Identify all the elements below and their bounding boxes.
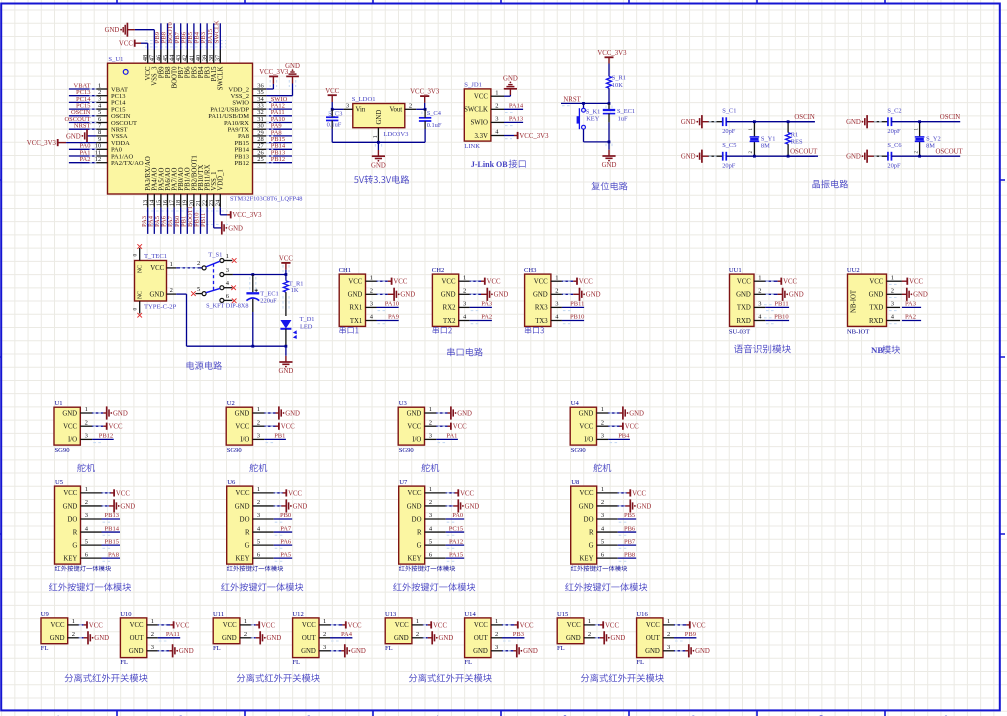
svg-text:2: 2 bbox=[601, 499, 604, 506]
svg-text:1K: 1K bbox=[291, 287, 299, 294]
IR module U6 pin numbers bbox=[257, 486, 261, 558]
TYPE-C pin 2 stub bbox=[167, 287, 177, 294]
svg-text:2: 2 bbox=[85, 499, 88, 506]
svg-text:VCC: VCC bbox=[442, 279, 456, 286]
push button S_K1 KEY bbox=[577, 103, 609, 141]
svg-text:STM32F103C8T6_LQFP48: STM32F103C8T6_LQFP48 bbox=[230, 195, 302, 202]
svg-text:GND: GND bbox=[376, 110, 383, 125]
switch contact 2 bbox=[197, 260, 206, 270]
svg-text:PB11: PB11 bbox=[200, 213, 207, 227]
svg-text:0.1uF: 0.1uF bbox=[427, 122, 442, 129]
svg-text:3: 3 bbox=[323, 644, 326, 651]
wire pin 21 (PB10/TX) bbox=[194, 194, 201, 234]
svg-text:3: 3 bbox=[495, 644, 498, 651]
wire pin 11 (PA1/AO) bbox=[69, 149, 108, 156]
title servo bbox=[249, 464, 267, 472]
wire U7 pin 3 net PA0 bbox=[425, 512, 465, 522]
svg-text:3: 3 bbox=[85, 433, 88, 440]
capacitor S_C3 bbox=[326, 109, 342, 142]
svg-text:1: 1 bbox=[588, 618, 591, 625]
svg-text:VCC: VCC bbox=[567, 622, 581, 629]
svg-text:FL: FL bbox=[636, 659, 644, 666]
svg-text:RX1: RX1 bbox=[349, 305, 362, 312]
svg-text:1: 1 bbox=[370, 274, 373, 281]
servo module U2 SG90 body bbox=[226, 407, 252, 445]
title separate IR switch module bbox=[581, 674, 664, 683]
switch lever 5-4 bbox=[206, 288, 220, 292]
svg-text:VCC: VCC bbox=[348, 622, 362, 629]
svg-text:G: G bbox=[589, 542, 594, 549]
ground at MCU pin 8 VSSA bbox=[66, 129, 96, 142]
wire U16 pin 2 net PB9 bbox=[663, 631, 696, 641]
title 5V to 3.3V circuit bbox=[354, 175, 409, 183]
svg-text:NRST: NRST bbox=[74, 123, 91, 130]
servo module U4 SG90 body bbox=[570, 407, 596, 445]
svg-text:VCC: VCC bbox=[909, 279, 923, 286]
ground at U11 pin 2 bbox=[240, 631, 281, 644]
svg-text:GND: GND bbox=[105, 27, 120, 34]
power flag VCC (LDO input) bbox=[325, 88, 339, 110]
svg-text:20pF: 20pF bbox=[887, 128, 901, 135]
svg-text:VCC_3V3: VCC_3V3 bbox=[410, 89, 440, 96]
svg-text:PA5: PA5 bbox=[280, 551, 291, 558]
svg-text:PA3: PA3 bbox=[481, 301, 492, 308]
IR module U5 pin numbers bbox=[85, 486, 89, 558]
connector S_JD1 body bbox=[464, 89, 491, 141]
svg-text:2: 2 bbox=[429, 419, 432, 426]
svg-text:GND: GND bbox=[602, 162, 617, 169]
svg-text:PA11: PA11 bbox=[166, 631, 180, 638]
node LED ground junction bbox=[285, 345, 288, 348]
svg-text:PA6: PA6 bbox=[280, 538, 292, 545]
svg-text:VCC: VCC bbox=[580, 490, 594, 497]
MCU U1 STM32F103C8T6 body bbox=[108, 63, 253, 194]
ground at UU1 pin 2 bbox=[754, 288, 804, 301]
svg-text:GND: GND bbox=[473, 648, 488, 655]
svg-text:1: 1 bbox=[667, 618, 670, 625]
ground at MCU pin 35 VSS_2 bbox=[266, 63, 300, 96]
ground at U3 pin 1 bbox=[425, 406, 473, 419]
svg-text:GND: GND bbox=[846, 154, 861, 161]
wire ground bus bottom bbox=[187, 345, 286, 347]
LDO U1 regulator S_LDO1 body bbox=[353, 104, 405, 128]
resistor S_R1 10K bbox=[607, 75, 627, 89]
svg-text:U11: U11 bbox=[213, 611, 224, 618]
svg-text:PB11: PB11 bbox=[570, 301, 584, 308]
svg-text:VCC: VCC bbox=[632, 490, 646, 497]
TYPE-C shell pin bottom (unconnected) bbox=[132, 301, 142, 318]
svg-text:3: 3 bbox=[370, 301, 373, 308]
svg-text:VCC: VCC bbox=[646, 622, 660, 629]
wire pin 19 (PB1/AO) bbox=[180, 194, 187, 234]
IR module U5 part name bbox=[55, 566, 111, 572]
MCU top pin names bbox=[145, 66, 225, 90]
power flag VCC_3V3 (reset pull-up) bbox=[597, 50, 627, 76]
ground at U2 pin 1 bbox=[253, 406, 301, 419]
servo module U1 SG90 body bbox=[54, 407, 80, 445]
svg-text:GND: GND bbox=[439, 635, 454, 642]
LDO pin 1 stub (GND) bbox=[372, 128, 379, 143]
svg-text:PA2: PA2 bbox=[80, 156, 91, 163]
svg-text:VCC: VCC bbox=[348, 279, 362, 286]
svg-text:PA2/TX/AO: PA2/TX/AO bbox=[111, 160, 144, 167]
wire U6 pin 5 net PA6 bbox=[253, 538, 293, 548]
IR switch module U12 body bbox=[293, 618, 319, 658]
svg-text:PA7: PA7 bbox=[280, 525, 292, 532]
svg-text:KEY: KEY bbox=[236, 555, 250, 562]
svg-text:2: 2 bbox=[463, 288, 466, 295]
svg-text:RXD: RXD bbox=[736, 318, 750, 325]
svg-text:1: 1 bbox=[416, 618, 419, 625]
svg-text:S_K1: S_K1 bbox=[586, 108, 601, 115]
svg-text:PA8: PA8 bbox=[108, 551, 119, 558]
svg-text:OSCIN: OSCIN bbox=[940, 114, 960, 121]
svg-text:5: 5 bbox=[429, 538, 432, 545]
svg-text:PB9: PB9 bbox=[685, 631, 696, 638]
svg-text:VCC: VCC bbox=[487, 279, 501, 286]
ground at J-Link pin 1 bbox=[509, 89, 511, 95]
svg-text:GND: GND bbox=[407, 503, 422, 510]
wire pin 32 (PA11/USB/DM) bbox=[253, 109, 293, 116]
IR switch module U9 body bbox=[41, 618, 68, 644]
wire U8 pin 4 net PB6 bbox=[597, 525, 637, 535]
svg-text:I/O: I/O bbox=[240, 437, 249, 444]
svg-text:VCC: VCC bbox=[520, 622, 534, 629]
svg-text:VCC: VCC bbox=[460, 490, 474, 497]
node resistor bottom bbox=[787, 155, 790, 158]
wire U6 pin 4 net PA7 bbox=[253, 525, 293, 535]
svg-text:2: 2 bbox=[257, 419, 260, 426]
svg-text:VCC: VCC bbox=[281, 424, 295, 431]
svg-text:VCC: VCC bbox=[453, 424, 467, 431]
svg-text:VCC: VCC bbox=[869, 279, 883, 286]
svg-text:PA10: PA10 bbox=[385, 301, 399, 308]
svg-text:GND: GND bbox=[279, 368, 294, 375]
title reset circuit bbox=[591, 182, 627, 191]
switch link dashed line bbox=[213, 264, 215, 292]
svg-text:3: 3 bbox=[601, 512, 604, 519]
ground at U16 pin 3 bbox=[663, 644, 710, 657]
TYPE-C pin 1 stub bbox=[167, 261, 177, 268]
svg-text:VCC_3V3: VCC_3V3 bbox=[597, 50, 627, 57]
svg-text:GND: GND bbox=[50, 635, 65, 642]
svg-text:SWCLK: SWCLK bbox=[213, 20, 220, 43]
svg-text:PA13: PA13 bbox=[509, 116, 523, 123]
svg-text:1: 1 bbox=[151, 618, 154, 625]
svg-text:U14: U14 bbox=[464, 611, 476, 618]
svg-text:U8: U8 bbox=[571, 479, 580, 486]
wire U14 pin 2 net PB3 bbox=[491, 631, 524, 641]
svg-text:S_LDO1: S_LDO1 bbox=[352, 96, 376, 103]
title voice recognition module bbox=[734, 344, 791, 353]
switch contact 1 (unconnected) bbox=[220, 253, 237, 263]
wire pin 14 (PA4/AO) bbox=[147, 194, 154, 234]
wire U10 pin 2 net PA11 bbox=[147, 631, 180, 641]
svg-text:GND: GND bbox=[523, 648, 538, 655]
wire J-Link pin 3 (PA13) bbox=[491, 116, 523, 126]
svg-text:TYPE-C-2P: TYPE-C-2P bbox=[144, 303, 177, 310]
wire resistor to NRST node bbox=[608, 88, 610, 103]
power flag VCC_3V3 at MCU pin 24 VDD_1 bbox=[220, 208, 262, 220]
power flag VCC at U14 pin 1 bbox=[491, 621, 534, 629]
wire VCC node to LDO pin 3 bbox=[332, 108, 343, 110]
svg-text:GND: GND bbox=[129, 648, 144, 655]
svg-text:VCC: VCC bbox=[63, 424, 77, 431]
power flag VCC at U1 pin 2 bbox=[80, 423, 123, 431]
wire pin 1 (VBAT) bbox=[69, 82, 108, 89]
svg-text:SG90: SG90 bbox=[227, 447, 243, 454]
wire pin 17 (PA7/AO) bbox=[167, 194, 174, 234]
wire pin 22 (PB11/RX) bbox=[200, 194, 207, 234]
svg-text:5: 5 bbox=[257, 538, 260, 545]
svg-text:VCC: VCC bbox=[408, 490, 422, 497]
title servo bbox=[421, 464, 439, 472]
net label NRST wire bbox=[561, 96, 609, 105]
resistor R1 RES (feedback) bbox=[786, 122, 803, 157]
svg-text:VCC_3V3: VCC_3V3 bbox=[519, 133, 549, 140]
svg-text:SG90: SG90 bbox=[399, 447, 415, 454]
svg-text:3: 3 bbox=[257, 512, 260, 519]
svg-text:20pF: 20pF bbox=[722, 162, 736, 169]
svg-text:PA2: PA2 bbox=[481, 314, 492, 321]
svg-text:OSCOUT: OSCOUT bbox=[935, 148, 963, 155]
svg-text:GND: GND bbox=[611, 635, 626, 642]
svg-text:R: R bbox=[589, 529, 594, 536]
power flag VCC at U8 pin 1 bbox=[597, 489, 647, 497]
svg-text:GND: GND bbox=[222, 635, 237, 642]
wire pin 28 (PB15) bbox=[253, 136, 293, 143]
IR module U6 part name bbox=[227, 566, 283, 572]
wire U6 pin 6 net PA5 bbox=[253, 551, 293, 561]
svg-text:S_KFT DIP-8X8: S_KFT DIP-8X8 bbox=[206, 302, 248, 309]
IR switch module U10 body bbox=[120, 618, 146, 658]
wire U5 pin 4 net PB14 bbox=[81, 525, 121, 535]
switch contact 5 (unconnected) bbox=[191, 286, 206, 296]
svg-text:GND: GND bbox=[149, 291, 164, 298]
svg-text:VCC_3V3: VCC_3V3 bbox=[232, 212, 262, 219]
svg-text:GND: GND bbox=[465, 503, 480, 510]
svg-text:U9: U9 bbox=[41, 611, 50, 618]
svg-text:PA12: PA12 bbox=[449, 538, 463, 545]
power flag VCC_3V3 at MCU pin 9 VDDA bbox=[27, 139, 96, 147]
svg-text:VCC: VCC bbox=[395, 622, 409, 629]
wire pin 13 (PA3/RX/AO) bbox=[141, 194, 148, 234]
svg-text:3: 3 bbox=[463, 301, 466, 308]
svg-text:OUT: OUT bbox=[130, 635, 145, 642]
svg-text:GND: GND bbox=[407, 410, 422, 417]
svg-text:NB: NB bbox=[871, 345, 883, 355]
power flag VCC at U6 pin 1 bbox=[253, 489, 303, 497]
svg-text:VCC: VCC bbox=[116, 490, 130, 497]
svg-text:0: 0 bbox=[132, 254, 138, 257]
svg-text:GND: GND bbox=[736, 292, 751, 299]
wire pin 35 (VSS_2) bbox=[253, 95, 267, 97]
svg-text:U2: U2 bbox=[227, 400, 235, 407]
servo U1 pin numbers bbox=[85, 406, 88, 439]
ground at U1 pin 1 bbox=[80, 406, 128, 419]
svg-text:2: 2 bbox=[323, 631, 326, 638]
wire UU2 pin 4 net PA2 bbox=[887, 314, 922, 324]
ground at U7 pin 2 bbox=[425, 499, 480, 512]
capacitor T_EC1 220uF bbox=[246, 275, 278, 347]
svg-text:S_C1: S_C1 bbox=[722, 108, 736, 115]
power flag VCC (main) bbox=[279, 255, 293, 274]
svg-text:Vout: Vout bbox=[389, 107, 402, 114]
svg-text:3: 3 bbox=[758, 301, 761, 308]
svg-text:GND: GND bbox=[586, 292, 601, 299]
svg-text:2: 2 bbox=[244, 631, 247, 638]
svg-text:PB1: PB1 bbox=[274, 433, 285, 440]
svg-text:1: 1 bbox=[85, 486, 88, 493]
svg-text:TXD: TXD bbox=[737, 305, 751, 312]
svg-text:PB12: PB12 bbox=[99, 433, 113, 440]
svg-text:VCC: VCC bbox=[737, 279, 751, 286]
power flag VCC at U7 pin 1 bbox=[425, 489, 475, 497]
svg-text:U10: U10 bbox=[120, 611, 132, 618]
svg-text:VCC: VCC bbox=[261, 622, 275, 629]
wire CH3 pin 3 net PB11 bbox=[551, 301, 585, 311]
svg-text:2: 2 bbox=[409, 102, 412, 109]
ground at U10 pin 3 bbox=[147, 644, 194, 657]
wire pin 15 (PA5/AO) bbox=[154, 194, 161, 234]
svg-text:3: 3 bbox=[555, 301, 558, 308]
svg-text:1: 1 bbox=[226, 253, 229, 260]
svg-text:VCC: VCC bbox=[302, 622, 316, 629]
power flag VCC at MCU pin 48 bbox=[119, 40, 148, 50]
svg-text:2: 2 bbox=[495, 631, 498, 638]
wire U8 pin 6 net PB8 bbox=[597, 551, 637, 561]
svg-text:1: 1 bbox=[72, 618, 75, 625]
svg-text:PB3: PB3 bbox=[513, 631, 524, 638]
servo U2 pin numbers bbox=[257, 406, 260, 439]
svg-text:U16: U16 bbox=[636, 611, 648, 618]
svg-text:PB11: PB11 bbox=[774, 301, 788, 308]
power flag VCC at U12 pin 1 bbox=[319, 621, 362, 629]
power flag VCC at CH2 pin 1 bbox=[459, 278, 501, 286]
IR switch module U16 body bbox=[637, 618, 663, 658]
svg-text:PC15: PC15 bbox=[449, 525, 463, 532]
wire TYPE-C VCC to switch bbox=[176, 267, 202, 269]
wire CH3 pin 4 net PB10 bbox=[551, 314, 585, 324]
wire pin 20 (PB2/BOOT1) bbox=[187, 194, 194, 234]
svg-text:I/O: I/O bbox=[584, 437, 593, 444]
wire pin 26 (PB13) bbox=[253, 149, 293, 156]
svg-text:GND: GND bbox=[113, 410, 128, 417]
svg-text:T_D1: T_D1 bbox=[300, 316, 315, 323]
wire LDO pin2 to VCC_3V3 node bbox=[416, 108, 425, 110]
wire U2 pin 3 net PB1 bbox=[253, 433, 286, 443]
ground at U6 pin 2 bbox=[253, 499, 308, 512]
wire pin 37 (SWCLK) bbox=[213, 20, 220, 63]
svg-text:3: 3 bbox=[257, 433, 260, 440]
wire pin 23 (VSS_1) bbox=[213, 194, 215, 208]
svg-text:1: 1 bbox=[257, 486, 260, 493]
svg-text:S_C2: S_C2 bbox=[887, 108, 901, 115]
svg-text:PA0: PA0 bbox=[452, 512, 463, 519]
TYPE-C shell pin top (unconnected) bbox=[132, 244, 142, 260]
wire pin 27 (PB14) bbox=[253, 143, 293, 150]
svg-text:DO: DO bbox=[240, 516, 250, 523]
svg-text:1: 1 bbox=[601, 406, 604, 413]
svg-text:1: 1 bbox=[758, 274, 761, 281]
U13 pin numbers bbox=[416, 618, 419, 638]
svg-text:GND: GND bbox=[579, 410, 594, 417]
svg-text:VCC: VCC bbox=[474, 94, 488, 101]
wire pin 43 (PB7) bbox=[174, 23, 181, 63]
wire pin 18 (PB0/AO) bbox=[174, 194, 181, 234]
node capacitor bottom bbox=[251, 345, 254, 348]
svg-text:2: 2 bbox=[72, 631, 75, 638]
ground at MCU pin 23 VSS_1 bbox=[214, 208, 243, 235]
title separate IR switch module bbox=[65, 674, 148, 683]
title IR key-light module bbox=[221, 583, 303, 592]
svg-text:PA3: PA3 bbox=[905, 301, 916, 308]
svg-text:GND: GND bbox=[566, 635, 581, 642]
svg-text:DO: DO bbox=[67, 516, 77, 523]
wire pin 33 (PA12/USB/DP) bbox=[253, 103, 293, 110]
svg-text:U12: U12 bbox=[292, 611, 303, 618]
svg-text:KEY: KEY bbox=[63, 555, 77, 562]
svg-text:FL: FL bbox=[213, 645, 221, 652]
svg-text:GND: GND bbox=[285, 63, 300, 70]
svg-text:VCC: VCC bbox=[692, 622, 706, 629]
svg-text:VCC: VCC bbox=[325, 88, 339, 95]
svg-text:VCC_3V3: VCC_3V3 bbox=[27, 140, 57, 147]
node LDO output bbox=[424, 108, 427, 111]
node LDO ground bbox=[377, 141, 380, 144]
wire pin 39 (PB3) bbox=[200, 23, 207, 63]
svg-text:12: 12 bbox=[95, 156, 102, 163]
svg-text:PB10: PB10 bbox=[570, 314, 584, 321]
LED T_D1 bbox=[280, 316, 314, 346]
svg-text:GND: GND bbox=[371, 162, 386, 169]
svg-text:2: 2 bbox=[416, 631, 419, 638]
svg-text:RX2: RX2 bbox=[443, 305, 456, 312]
power flag VCC at U2 pin 2 bbox=[253, 423, 296, 431]
svg-text:3: 3 bbox=[667, 644, 670, 651]
connector CH2 port label bbox=[433, 327, 452, 334]
svg-text:VCC: VCC bbox=[236, 490, 250, 497]
node reset ground junction bbox=[608, 141, 611, 144]
svg-text:VCC: VCC bbox=[63, 490, 77, 497]
svg-text:1: 1 bbox=[555, 274, 558, 281]
wire U5 pin 5 net PB15 bbox=[81, 538, 121, 548]
U15 pin numbers bbox=[588, 618, 591, 638]
svg-text:OSCIN: OSCIN bbox=[794, 114, 814, 121]
svg-text:1: 1 bbox=[495, 89, 498, 96]
title servo bbox=[593, 464, 611, 472]
svg-text:PB7: PB7 bbox=[624, 538, 636, 545]
svg-text:S_C5: S_C5 bbox=[722, 142, 736, 149]
svg-text:U5: U5 bbox=[55, 479, 64, 486]
MCU top pin numbers 37-48 bbox=[142, 54, 222, 61]
UU1 pin numbers bbox=[758, 274, 762, 320]
ground at U9 pin 2 bbox=[68, 631, 109, 644]
MCU left pin numbers 1-12 bbox=[95, 82, 102, 163]
title separate IR switch module bbox=[237, 674, 320, 683]
svg-text:1: 1 bbox=[244, 618, 247, 625]
IR module U6 body bbox=[227, 486, 253, 564]
wire pin 45 (PB8) bbox=[161, 23, 168, 63]
svg-text:GND: GND bbox=[63, 503, 78, 510]
svg-text:G: G bbox=[417, 542, 422, 549]
svg-text:FL: FL bbox=[292, 659, 300, 666]
svg-text:2: 2 bbox=[85, 419, 88, 426]
svg-text:5: 5 bbox=[197, 286, 200, 293]
svg-text:GND: GND bbox=[120, 503, 135, 510]
svg-text:GND: GND bbox=[179, 648, 194, 655]
wire U7 pin 5 net PA12 bbox=[425, 538, 465, 548]
